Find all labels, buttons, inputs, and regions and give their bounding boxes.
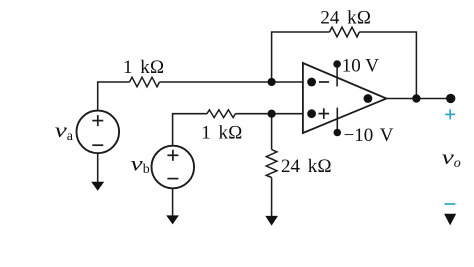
svg-text:vo: vo <box>442 145 461 171</box>
svg-text:1 kΩ: 1 kΩ <box>123 57 164 78</box>
svg-text:10 V: 10 V <box>342 56 379 77</box>
svg-text:vb: vb <box>131 151 150 177</box>
svg-text:−10 V: −10 V <box>344 125 394 146</box>
svg-text:24 kΩ: 24 kΩ <box>320 7 371 28</box>
svg-text:24 kΩ: 24 kΩ <box>281 156 332 177</box>
svg-text:va: va <box>55 118 74 144</box>
svg-text:1 kΩ: 1 kΩ <box>201 122 242 143</box>
